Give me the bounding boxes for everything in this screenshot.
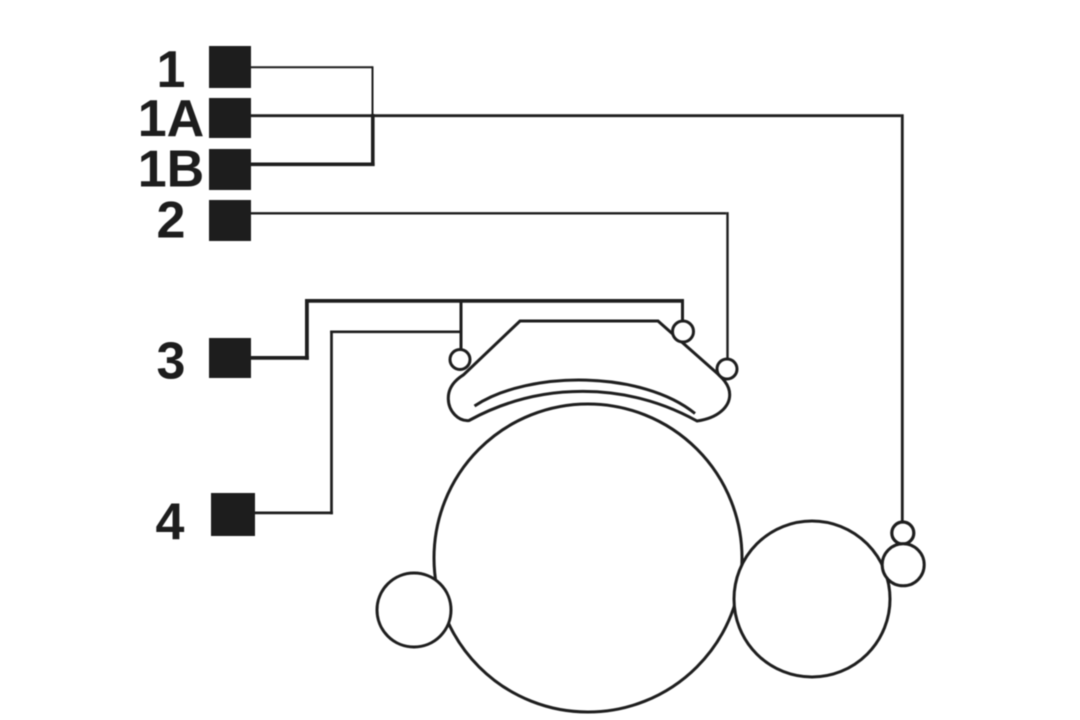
- terminal 1: [209, 46, 251, 88]
- wire 1B: [250, 163, 375, 167]
- 1A terminal small contact: [892, 522, 914, 544]
- terminal 2: [209, 200, 251, 241]
- terminal 1A: [209, 98, 251, 138]
- wire 3: [250, 356, 309, 360]
- wire 4: [254, 512, 333, 515]
- wire junction drop to left lamp contact: [460, 301, 463, 350]
- svg-text:2: 2: [157, 192, 186, 250]
- small roller (left): [377, 573, 451, 647]
- lamp contact right: [717, 359, 737, 379]
- inner arc of thermostat cover: [475, 380, 696, 413]
- wire 1-1B bracket vertical: [372, 66, 374, 115]
- heat roller (big circle): [434, 404, 742, 712]
- pressure roller (right): [734, 521, 890, 677]
- wire 1A: [250, 114, 901, 117]
- wire 1: [250, 66, 373, 68]
- lamp contact left: [450, 350, 470, 370]
- svg-text:1A: 1A: [138, 90, 204, 148]
- terminal 1B: [209, 149, 251, 190]
- lamp contact top right: [673, 321, 694, 342]
- svg-text:4: 4: [156, 494, 185, 552]
- svg-text:3: 3: [157, 333, 186, 391]
- 1A terminal bearing circle: [882, 544, 924, 586]
- svg-text:1B: 1B: [138, 141, 204, 199]
- thermostat cover (hat): [448, 321, 729, 421]
- terminal 3: [209, 338, 251, 378]
- wire 2: [250, 212, 726, 214]
- terminal 4: [211, 493, 255, 536]
